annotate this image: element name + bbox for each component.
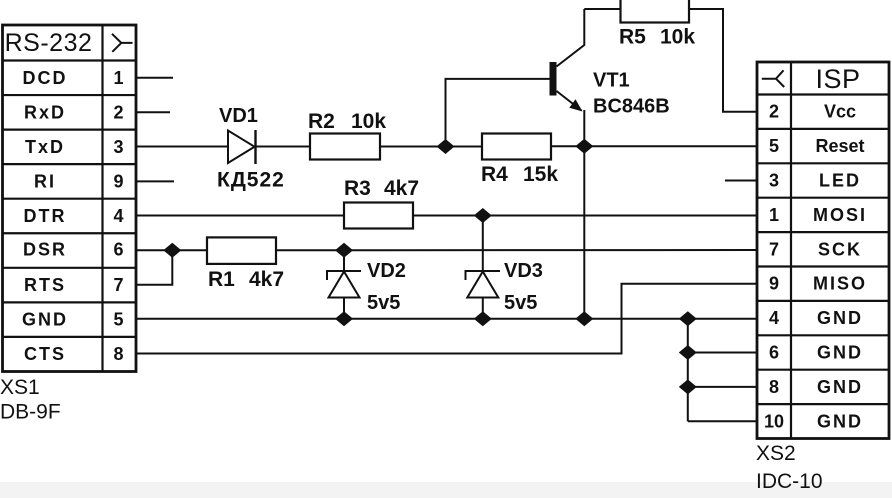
svg-text:VT1: VT1 [593, 70, 630, 92]
junction ISP ground branch node [679, 311, 697, 326]
junction emitter ground node [575, 311, 593, 326]
svg-text:15k: 15k [523, 163, 558, 186]
label R3 4k7 [344, 177, 419, 200]
XS1 designator [0, 376, 40, 399]
svg-text:Reset: Reset [815, 136, 864, 156]
zener VD2 [327, 250, 361, 318]
XS1 row labels [22, 68, 68, 364]
svg-text:R3: R3 [344, 177, 371, 200]
svg-text:5: 5 [769, 136, 779, 156]
svg-text:10k: 10k [660, 26, 695, 49]
label R5 10k [619, 26, 695, 49]
svg-text:LED: LED [819, 171, 861, 191]
XS2 designator [756, 442, 796, 465]
svg-text:9: 9 [769, 274, 779, 294]
svg-text:Vcc: Vcc [824, 102, 856, 122]
svg-text:6: 6 [113, 239, 123, 259]
wire emitter down to ground bus [583, 146, 585, 318]
wire LED stub pin3 [725, 180, 757, 182]
svg-text:4k7: 4k7 [249, 268, 284, 291]
junction GND pin8 node [679, 379, 697, 394]
label КД522 [217, 169, 285, 192]
connector XS2 table frame [757, 62, 889, 439]
svg-text:XS1: XS1 [0, 376, 40, 399]
junction RTS tie node [163, 243, 181, 258]
XS1 type DB-9F [0, 401, 61, 424]
svg-text:GND: GND [817, 343, 863, 363]
svg-text:8: 8 [769, 377, 779, 397]
svg-text:R2: R2 [308, 110, 335, 133]
svg-text:DTR: DTR [24, 206, 67, 226]
svg-text:MISO: MISO [813, 274, 867, 294]
resistor R5 [621, 0, 690, 23]
label R1 4k7 [208, 268, 284, 291]
wire R4 to Reset pin5 [551, 145, 757, 147]
svg-text:GND: GND [817, 308, 863, 328]
wire RTS jumper to DSR [136, 250, 172, 284]
XS2 pin numbers [764, 102, 784, 432]
svg-text:RS-232: RS-232 [5, 29, 93, 57]
junction VD3 anode node [474, 311, 492, 326]
wire TxD to VD1 [136, 146, 228, 148]
svg-text:ISP: ISP [815, 64, 860, 94]
label VD2 value 5v5 [367, 292, 400, 314]
wire R2 to R4 through node [380, 146, 482, 148]
svg-text:6: 6 [769, 343, 779, 363]
svg-text:3: 3 [113, 137, 123, 157]
XS2 header label ISP [815, 64, 860, 94]
XS1 pin numbers [113, 68, 123, 364]
svg-text:RI: RI [34, 171, 56, 191]
svg-text:2: 2 [113, 102, 123, 122]
svg-text:GND: GND [22, 309, 68, 329]
diode VD1 [228, 130, 256, 164]
svg-text:2: 2 [769, 102, 779, 122]
junction VD2 top node [335, 243, 353, 258]
XS1 header connector symbol [112, 34, 133, 52]
svg-text:DB-9F: DB-9F [0, 401, 61, 424]
junction VD3 top node [474, 208, 492, 223]
wire VD1 to R2 [256, 146, 311, 148]
label VT1 [593, 70, 630, 92]
svg-text:GND: GND [817, 411, 863, 431]
junction GND pin6 node [679, 345, 697, 360]
wire ground bus GND pin5 to GND pin4 [136, 318, 757, 320]
svg-text:5v5: 5v5 [504, 292, 537, 314]
label R4 15k [481, 163, 558, 186]
svg-text:R4: R4 [481, 163, 508, 186]
label VD3 value 5v5 [504, 292, 537, 314]
wire R1 to SCK pin7 [276, 249, 757, 251]
svg-text:5v5: 5v5 [367, 292, 400, 314]
junction VD2 anode node [335, 311, 353, 326]
resistor R1 [207, 237, 276, 264]
wire R3 to MOSI pin1 [413, 215, 757, 217]
svg-text:4k7: 4k7 [384, 177, 419, 200]
svg-text:DSR: DSR [23, 239, 67, 259]
svg-text:XS2: XS2 [756, 442, 796, 465]
svg-text:SCK: SCK [818, 239, 862, 259]
label R2 10k [308, 110, 386, 133]
label BC846B [593, 96, 670, 118]
svg-text:TxD: TxD [25, 137, 65, 157]
wire base of VT1 [446, 79, 550, 147]
wire CTS to MISO pin9 [136, 284, 757, 354]
svg-text:DCD: DCD [23, 68, 68, 88]
svg-text:10k: 10k [351, 110, 386, 133]
svg-text:MOSI: MOSI [813, 205, 867, 225]
svg-text:IDC-10: IDC-10 [756, 470, 823, 493]
resistor R2 [310, 134, 380, 160]
label VD3 [504, 260, 543, 282]
svg-text:10: 10 [764, 411, 784, 431]
wire RI stub pin9 [136, 180, 174, 182]
svg-text:7: 7 [769, 239, 779, 259]
svg-text:9: 9 [113, 171, 123, 191]
resistor R3 [344, 203, 413, 229]
svg-text:R5: R5 [619, 26, 646, 49]
connector XS1 table frame [3, 25, 137, 372]
wire ISP ground chain [688, 319, 757, 422]
wire DSR to R1 [136, 249, 207, 251]
junction node base divider [437, 139, 455, 154]
XS2 signal names [813, 102, 867, 432]
svg-text:3: 3 [769, 171, 779, 191]
XS2 type IDC-10 [756, 470, 823, 493]
svg-text:BC846B: BC846B [593, 96, 670, 118]
label VD2 [367, 260, 406, 282]
label VD1 [219, 105, 258, 127]
svg-text:RxD: RxD [24, 102, 66, 122]
svg-text:CTS: CTS [24, 344, 66, 364]
svg-text:RTS: RTS [24, 275, 66, 295]
svg-text:4: 4 [113, 206, 123, 226]
wire R5 to Vcc pin2 [689, 9, 757, 112]
svg-text:1: 1 [113, 68, 123, 88]
wire DCD stub pin1 [136, 77, 173, 79]
svg-text:VD3: VD3 [504, 260, 543, 282]
wire collector to R5 [584, 8, 620, 10]
svg-text:VD2: VD2 [367, 260, 406, 282]
XS2 header connector symbol [762, 70, 784, 87]
svg-text:4: 4 [769, 308, 779, 328]
svg-text:R1: R1 [208, 268, 235, 291]
svg-text:7: 7 [113, 275, 123, 295]
svg-text:КД522: КД522 [217, 169, 285, 192]
zener VD3 [466, 216, 501, 319]
svg-text:1: 1 [769, 205, 779, 225]
junction emitter node [575, 139, 593, 154]
svg-text:8: 8 [113, 344, 123, 364]
svg-text:GND: GND [817, 377, 863, 397]
transistor VT1 [550, 9, 585, 146]
resistor R4 [482, 134, 551, 160]
wire DTR to R3 [136, 215, 344, 217]
svg-text:VD1: VD1 [219, 105, 258, 127]
svg-text:5: 5 [113, 309, 123, 329]
wire RxD stub pin2 [136, 111, 170, 113]
XS1 header label RS-232 [5, 29, 93, 57]
